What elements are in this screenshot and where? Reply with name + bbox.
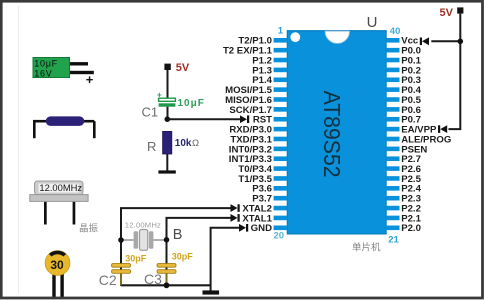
svg-text:R: R xyxy=(147,139,156,154)
svg-text:1: 1 xyxy=(278,25,284,36)
svg-text:C1: C1 xyxy=(142,105,159,120)
svg-text:+: + xyxy=(86,72,94,87)
pin 15 T1/P3.5 (left stub) xyxy=(274,176,288,181)
resistor R 10k xyxy=(163,131,172,154)
capacitor icon 10uF 16V (green electrolytic) xyxy=(33,58,94,88)
junction node on 5V rail xyxy=(458,39,464,45)
ground (below R) xyxy=(158,170,175,173)
wire bottom rail xyxy=(121,284,211,286)
pin 33 P0.6 (right stub) xyxy=(386,107,399,112)
pin 39 P0.0 (right stub) xyxy=(386,48,399,53)
pin 40 Vcc (right stub) xyxy=(386,38,399,43)
pin 23 P2.2 (right stub) xyxy=(386,206,399,211)
svg-text:30: 30 xyxy=(50,258,64,272)
faint page divider line xyxy=(18,6,20,294)
pin 37 P0.2 (right stub) xyxy=(386,68,399,73)
capacitor C2 30pF xyxy=(112,264,131,286)
pin 6 MOSI/P1.5 (left stub) xyxy=(274,87,288,92)
power node 5V (top right) xyxy=(457,7,463,13)
arrow into EA/VPP xyxy=(438,125,440,133)
junction node right of crystal xyxy=(164,237,170,243)
arrow into XTAL1 xyxy=(238,214,240,222)
arrow into XTAL2 xyxy=(238,204,240,212)
wire GND net xyxy=(211,228,241,291)
svg-text:U: U xyxy=(367,14,378,31)
svg-text:12.00MHz: 12.00MHz xyxy=(39,182,82,193)
svg-text:10μF: 10μF xyxy=(34,59,58,69)
pin 13 INT1/P3.3 (left stub) xyxy=(274,156,288,161)
pin 8 SCK/P1.7 (left stub) xyxy=(274,107,288,112)
power node 5V (middle) xyxy=(164,64,170,70)
svg-text:B: B xyxy=(173,227,183,243)
arrow into RST xyxy=(247,115,249,123)
wire R to ground xyxy=(166,154,168,171)
wire node to RST pin xyxy=(167,118,243,120)
pin 11 TXD/P3.1 (left stub) xyxy=(274,137,288,142)
pin 20 GND (left stub) xyxy=(274,225,288,230)
svg-text:12.00MHz: 12.00MHz xyxy=(125,221,161,230)
svg-text:5V: 5V xyxy=(176,62,190,74)
wire 5V rail down to EA/VPP xyxy=(449,14,461,130)
arrow into Vcc xyxy=(420,38,422,46)
pin 28 P2.7 (right stub) xyxy=(386,156,399,161)
wire 5V to C1 xyxy=(167,70,169,98)
pin 4 P1.3 (left stub) xyxy=(274,68,288,73)
svg-text:40: 40 xyxy=(390,26,401,37)
svg-text:晶振: 晶振 xyxy=(79,223,99,235)
pin 9 RST (left stub) xyxy=(274,117,288,122)
svg-text:5V: 5V xyxy=(440,7,454,19)
svg-text:AT89S52: AT89S52 xyxy=(319,91,345,178)
svg-text:21: 21 xyxy=(388,234,399,245)
capacitor C3 30pF xyxy=(157,264,176,286)
pin 34 P0.5 (right stub) xyxy=(386,97,399,102)
pin 27 P2.6 (right stub) xyxy=(386,166,399,171)
wire C1 to node xyxy=(167,107,169,120)
pin 7 MISO/P1.6 (left stub) xyxy=(274,97,288,102)
pin 2 T2 EX/P1.1 (left stub) xyxy=(274,48,288,53)
pin 17 P3.7 (left stub) xyxy=(274,196,288,201)
wire XTAL2 net (top) xyxy=(121,208,232,286)
crystal B symbol xyxy=(121,230,167,251)
pin 31 EA/VPP (right stub) xyxy=(386,127,399,132)
pin 26 P2.5 (right stub) xyxy=(386,176,399,181)
svg-text:30pF: 30pF xyxy=(125,253,147,263)
pin 32 P0.7 (right stub) xyxy=(386,117,399,122)
svg-text:10k: 10k xyxy=(175,138,192,149)
svg-text:P2.0: P2.0 xyxy=(401,223,421,234)
inductor icon (navy bead) xyxy=(33,116,94,138)
svg-text:Ω: Ω xyxy=(192,138,199,149)
junction node C3/bottom rail xyxy=(164,282,170,288)
pin 16 P3.6 (left stub) xyxy=(274,186,288,191)
pin 24 P2.3 (right stub) xyxy=(386,196,399,201)
capacitor icon 30 (yellow disc) xyxy=(45,251,70,298)
capacitor C1 10uF xyxy=(157,91,175,107)
pin 10 RXD/P3.0 (left stub) xyxy=(274,127,288,132)
pin 3 P1.2 (left stub) xyxy=(274,58,288,63)
svg-text:C3: C3 xyxy=(144,271,162,287)
junction node at C1/R xyxy=(165,116,171,122)
wire XTAL1 net xyxy=(167,218,232,286)
pin 30 ALE/PROG (right stub) xyxy=(386,137,399,142)
pin 14 T0/P3.4 (left stub) xyxy=(274,166,288,171)
op IC U AT89S52 body xyxy=(287,31,386,234)
arrow into GND xyxy=(246,224,248,232)
junction node left of crystal xyxy=(118,237,124,243)
wire branch to Vcc xyxy=(431,40,460,42)
svg-text:10μF: 10μF xyxy=(178,98,205,109)
crystal icon 12.00MHz (HC-49 package) xyxy=(30,181,88,225)
pin 25 P2.4 (right stub) xyxy=(386,186,399,191)
svg-text:C2: C2 xyxy=(99,272,117,288)
pin 35 P0.4 (right stub) xyxy=(386,87,399,92)
ground (bottom right) xyxy=(203,290,220,294)
svg-text:GND: GND xyxy=(251,223,272,234)
svg-text:单片机: 单片机 xyxy=(352,241,381,253)
pin 21 P2.0 (right stub) xyxy=(386,225,399,230)
pin 1 T2/P1.0 (left stub) xyxy=(274,38,288,43)
pin 22 P2.1 (right stub) xyxy=(386,216,399,221)
pin 5 P1.4 (left stub) xyxy=(274,77,288,82)
pin 12 INT0/P3.2 (left stub) xyxy=(274,147,288,152)
svg-text:20: 20 xyxy=(274,231,285,242)
svg-text:30pF: 30pF xyxy=(172,251,194,261)
pin 36 P0.3 (right stub) xyxy=(386,77,399,82)
pin 38 P0.1 (right stub) xyxy=(386,58,399,63)
pin 29 PSEN (right stub) xyxy=(386,147,399,152)
svg-text:16V: 16V xyxy=(34,69,52,79)
pin 19 XTAL1 (left stub) xyxy=(274,216,288,221)
pin 18 XTAL2 (left stub) xyxy=(274,206,288,211)
